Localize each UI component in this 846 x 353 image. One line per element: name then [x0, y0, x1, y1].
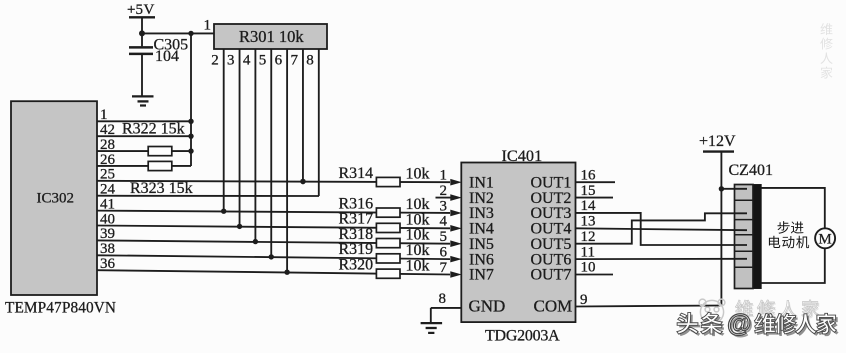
svg-text:5: 5: [259, 53, 267, 69]
svg-text:9: 9: [580, 292, 588, 308]
svg-text:4: 4: [440, 214, 448, 230]
svg-text:R314: R314: [339, 165, 374, 182]
svg-text:8: 8: [439, 291, 447, 307]
svg-text:TEMP47P840VN: TEMP47P840VN: [5, 300, 116, 317]
svg-text:14: 14: [581, 198, 597, 214]
svg-text:15: 15: [581, 183, 596, 199]
svg-text:OUT7: OUT7: [531, 267, 572, 284]
svg-text:6: 6: [275, 53, 283, 69]
svg-text:1: 1: [204, 18, 212, 34]
svg-text:1: 1: [440, 168, 448, 184]
svg-text:IC302: IC302: [37, 191, 75, 207]
svg-text:16: 16: [581, 167, 597, 183]
svg-text:13: 13: [581, 214, 596, 230]
svg-text:2: 2: [440, 183, 448, 199]
svg-text:104: 104: [155, 48, 179, 65]
svg-text:10k: 10k: [406, 257, 430, 274]
svg-text:7: 7: [290, 53, 298, 69]
svg-text:7: 7: [440, 260, 448, 276]
svg-text:R322 15k: R322 15k: [122, 121, 185, 138]
svg-text:3: 3: [227, 53, 235, 69]
svg-text:6: 6: [440, 245, 448, 261]
svg-text:4: 4: [243, 53, 251, 69]
svg-text:GND: GND: [469, 297, 506, 316]
svg-text:3: 3: [440, 198, 448, 214]
svg-text:10k: 10k: [406, 166, 430, 183]
svg-text:R320: R320: [339, 257, 374, 274]
svg-text:IC401: IC401: [502, 146, 543, 165]
svg-text:10: 10: [581, 260, 596, 276]
svg-text:12: 12: [581, 229, 596, 245]
svg-text:8: 8: [306, 53, 314, 69]
svg-text:V: V: [144, 2, 155, 18]
svg-text:R301 10k: R301 10k: [239, 27, 304, 46]
svg-text:@: @: [727, 310, 751, 338]
svg-text:M: M: [818, 232, 831, 248]
svg-text:R323 15k: R323 15k: [130, 180, 193, 197]
svg-text:CZ401: CZ401: [729, 162, 773, 179]
svg-text:COM: COM: [534, 297, 573, 316]
svg-text:5: 5: [440, 229, 448, 245]
svg-text:+5: +5: [127, 2, 143, 18]
svg-text:IN7: IN7: [469, 267, 494, 284]
svg-text:+12V: +12V: [699, 133, 736, 150]
svg-text:2: 2: [211, 53, 219, 69]
svg-text:11: 11: [581, 244, 595, 260]
svg-text:TDG2003A: TDG2003A: [485, 328, 560, 345]
